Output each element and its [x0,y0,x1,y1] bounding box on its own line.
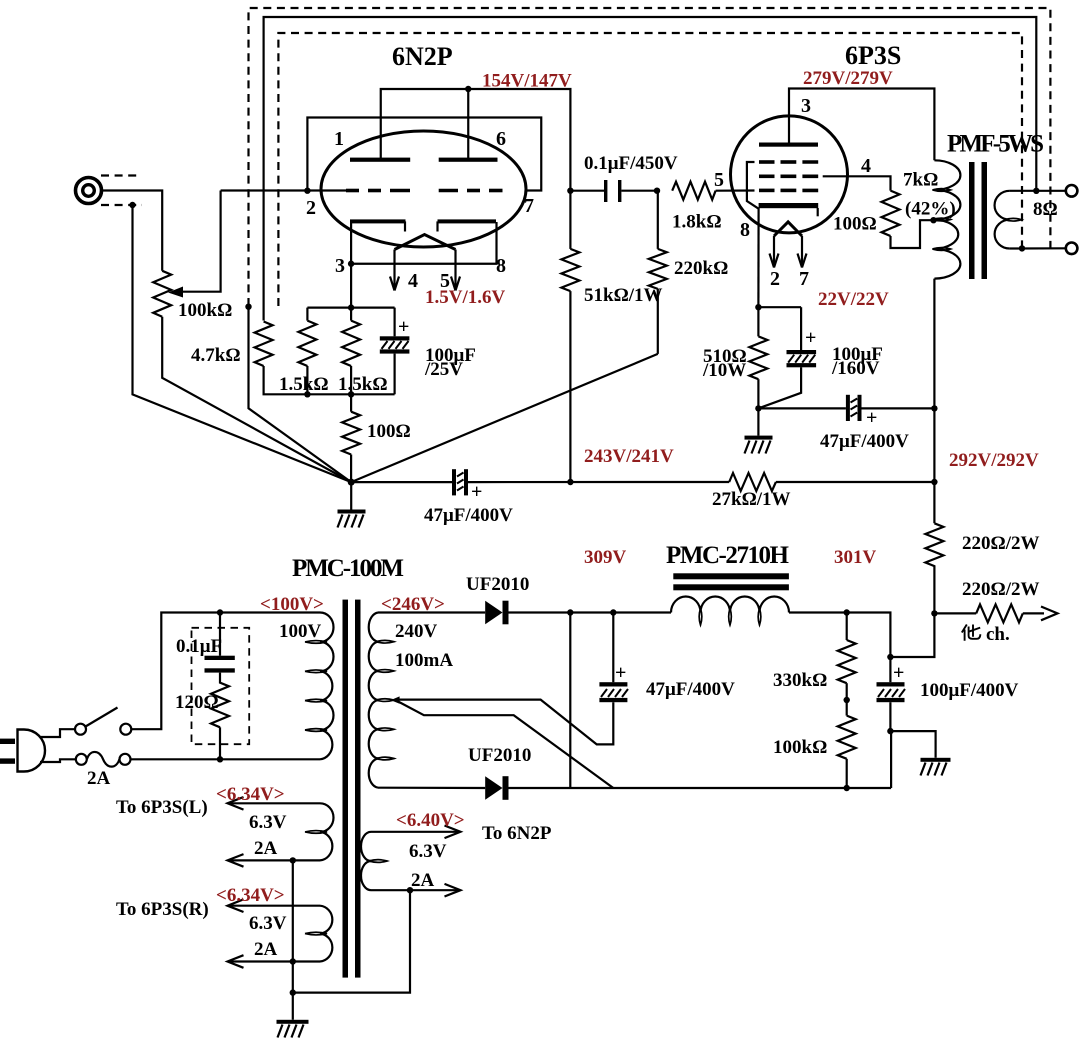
node: jack ground junction [129,202,135,208]
svg-text:8: 8 [740,219,750,241]
svg-text:220Ω/2W: 220Ω/2W [962,579,1040,600]
svg-text:<100V>: <100V> [260,594,324,615]
T2 secondary winding [995,191,1010,249]
svg-text:UF2010: UF2010 [468,745,531,766]
svg-text:100kΩ: 100kΩ [178,300,232,321]
T2 primary tap leaf 2 (42% UL tap) [932,218,950,221]
node: C7 top junction [610,609,616,615]
svg-text:7kΩ: 7kΩ [903,170,938,191]
T1 heater winding 6.3V for 6N2P [361,832,387,890]
svg-text:220Ω/2W: 220Ω/2W [962,533,1040,554]
grid g1 control row (dashed) [759,189,818,193]
wire: jack hot to volume pot top [102,191,162,271]
wire: T2 primary bottom to 292V node [933,279,935,524]
svg-text:+: + [471,481,482,503]
svg-text:7: 7 [799,268,809,290]
capacitor C8 100uF/400V final filter [877,657,906,731]
fuse F1 2A [76,752,131,767]
wire: dashed jack ground link [101,204,142,206]
resistor R3 1.5k ohm (first) [298,308,316,395]
node: bottom rail junction at 1.5k first [304,391,310,397]
node: 330k top junction [844,609,850,615]
node: 42 percent tap junction [930,217,936,223]
resistor R7 220k ohm (grid leak) [649,191,667,354]
AC plug P1 [0,730,45,772]
wire: 4.7k bottom to cathode bottom rail [264,366,395,394]
plate V2 (anode) [759,143,818,147]
svg-text:1.5kΩ: 1.5kΩ [338,374,388,395]
wire: center tap to C7 negative [395,700,614,745]
wire: secondary bottom to 8 ohm terminal [1010,247,1066,249]
label: 100uF /160V [831,344,883,379]
cathode V1b [438,219,497,231]
T1 heater winding 6.3V for 6P3S(L) [305,803,334,860]
wire: ground feedback continuation to star point [249,307,352,482]
svg-text:2: 2 [306,197,316,219]
svg-text:27kΩ/1W: 27kΩ/1W [712,489,791,510]
svg-text:154V/147V: 154V/147V [482,71,572,92]
tube V1 6N2P envelope [321,131,526,247]
T2 secondary leaf [1005,218,1022,221]
plate V1b (right anode) [439,158,498,162]
svg-text:1: 1 [334,128,344,150]
svg-text:22V/22V: 22V/22V [818,289,889,310]
node: grid rectangle junction at pin 2 [304,188,310,194]
wire: plate pin 3 to output transformer primary top [789,89,934,161]
resistor R4 1.5k ohm (second) [342,308,360,395]
node: cathode network top junction [755,304,761,310]
svg-text:220kΩ: 220kΩ [674,258,728,279]
svg-text:100V: 100V [279,621,322,642]
potentiometer VR1 100k ohm [153,271,171,317]
svg-text:2A: 2A [411,870,435,891]
ground G1 below star point [338,482,366,527]
node: C8 negative junction [887,728,893,734]
terminal: 8 ohm plus [1066,185,1078,197]
transformer T2 PMF-5WS output [932,131,1044,280]
svg-text:100Ω: 100Ω [833,214,877,235]
svg-text:243V/241V: 243V/241V [584,446,674,467]
svg-text:<6.34V>: <6.34V> [216,885,285,906]
svg-text:47μF/400V: 47μF/400V [820,431,909,452]
wire: grid signal line to 6N2P pin 2 [221,189,347,191]
wire: switch to 100V winding top [131,613,320,730]
svg-text:2A: 2A [87,768,111,789]
node: 292V junction [931,479,937,485]
svg-text:4: 4 [861,155,871,177]
wire: D2 cathode along bottom return rail [509,787,892,789]
node: ground bus lower junction [290,989,296,995]
node: snubber bottom junction [217,756,223,762]
wire: heater ground bus [292,860,294,1019]
resistor R15 330k ohm bleeder [838,613,856,716]
svg-text:47μF/400V: 47μF/400V [646,679,735,700]
T1 100V winding leaves [305,641,327,644]
wire: heater 6N2P return to ground bus [293,890,410,992]
label: other channel (kanji ta) ch. [962,624,1010,645]
wire: pot bottom to star ground [162,317,351,482]
L1 core [673,573,789,579]
capacitor C3 100uF/160V cathode bypass [758,307,816,408]
svg-text:+: + [893,662,904,684]
svg-text:4: 4 [408,270,418,292]
svg-text:1.5kΩ: 1.5kΩ [279,374,329,395]
T2 core [969,162,975,279]
node: heater R ground junction [290,958,296,964]
label: 100uF /25V [424,345,476,380]
transformer T1 PMC-100M [292,555,404,978]
wire: dashed feedback line (other channel, 8-ohm bottom to star ground) [249,8,1051,306]
svg-text:1.8kΩ: 1.8kΩ [672,212,722,233]
resistor R9 510 ohm /10W cathode bias [749,307,767,408]
T1 heater winding 6.3V for 6P3S(R) [305,906,332,962]
heater pin 7 lead arrow [798,236,807,268]
svg-text:6: 6 [496,128,506,150]
svg-text:47μF/400V: 47μF/400V [424,505,513,526]
snubber dashed box [192,628,250,744]
svg-text:PMC-2710H: PMC-2710H [666,542,790,569]
wire: screen grid pin 4 to UL tap resistor [823,176,891,190]
wire: cathode leads to pins 3 and 8 [351,222,496,264]
svg-text:7: 7 [524,195,534,217]
node: rectifier output junction [567,609,573,615]
wire: 243V rail [468,481,729,483]
wire: plate leads and B+ wire to coupling node [381,89,571,191]
resistor R11 27k/1W decoupling [729,473,934,491]
T1 core [343,600,349,978]
ground G2 below 510 network [745,408,773,453]
wire: plug neutral to fuse [40,759,76,762]
wire: solid NFB line (8-ohm top to 4.7k resistor) [264,17,1037,321]
resistor R6 51k/1W (plate load) [561,191,579,482]
T2 primary tap leaf 3 [932,248,950,251]
svg-text:120Ω: 120Ω [175,692,219,713]
wire: heater L bottom arrow [228,854,321,867]
wire: C8 negative to return rail corner [889,731,892,788]
wire: 240V bottom to diode D2 [378,787,485,789]
svg-text:/160V: /160V [831,358,880,379]
capacitor C7 47uF/400V reservoir [599,613,628,703]
svg-text:4.7kΩ: 4.7kΩ [191,345,241,366]
svg-text:2: 2 [770,268,780,290]
svg-text:100kΩ: 100kΩ [773,737,827,758]
svg-text:8: 8 [496,255,506,277]
node: bleeder bottom junction [844,785,850,791]
svg-text:6P3S: 6P3S [845,41,901,70]
wire: 240V top to diode D1 [378,611,485,613]
heater V1 filament [395,235,456,250]
wire: center tap to ground return rail [395,700,614,788]
choke L1 PMC-2710H [666,542,790,625]
diode D2 UF2010 [485,776,508,800]
svg-text:0.1μF: 0.1μF [176,636,222,657]
diode D1 UF2010 [485,601,508,625]
wire: heater R top arrow [228,899,321,912]
svg-text:<6.40V>: <6.40V> [396,810,465,831]
wire: choke output 301V [789,613,890,658]
node: plate B+ junction (154V measure point) [465,86,471,92]
svg-text:/25V: /25V [424,359,463,380]
node: snubber top junction [217,609,223,615]
resistor R10 100 ohm (UL tap stopper) [882,191,934,248]
svg-text:+: + [398,316,409,338]
wire: jack ground down to star point [133,205,352,482]
svg-text:2A: 2A [254,939,278,960]
switch SW1 [75,708,131,735]
wire: cathode network top rail [307,307,394,309]
svg-text:+: + [805,327,816,349]
resistor R2 4.7k ohm (NFB injection) [255,322,273,367]
node: star ground point [348,479,355,486]
svg-text:/10W: /10W [702,360,746,381]
resistor R14 120 ohm snubber [211,673,229,760]
svg-text:279V/279V: 279V/279V [803,68,893,89]
svg-text:309V: 309V [584,547,627,568]
svg-text:51kΩ/1W: 51kΩ/1W [584,285,663,306]
ground G4 at C8 [890,731,950,775]
wire: cathode pin 8 down to bias network [757,208,759,307]
svg-text:6.3V: 6.3V [409,841,447,862]
wire: grid tie rectangle pins 2-7 [307,118,541,191]
heater pin 4 lead arrow [390,250,399,291]
node: 100uF top junction [887,654,893,660]
wire: dashed stub from jack hot to other channel [101,174,142,176]
capacitor C2 100uF/25V electrolytic [380,308,410,395]
wire: top rail of 510 network [758,306,801,308]
node: plate coupling junction [567,188,573,194]
svg-text:3: 3 [801,95,811,117]
wire: heater 6N2P top arrow [371,826,461,839]
plate V1a (left anode) [350,158,410,162]
center tap arrow of 240V winding [391,696,400,703]
svg-text:UF2010: UF2010 [466,574,529,595]
resistor R8 1.8k ohm (grid stopper) [672,182,754,200]
wire: heater L top arrow [228,797,321,810]
wire: heater R bottom arrow [228,955,321,968]
T2 primary winding 7k ohm [934,160,960,278]
L1 coil [671,597,789,613]
svg-text:(42%): (42%) [905,199,956,220]
node: 510 network bottom junction [755,405,761,411]
wire: fuse to 100V winding bottom [131,758,321,760]
svg-text:0.1μF/450V: 0.1μF/450V [584,153,678,174]
node: bottom rail junction at 100 ohm [348,391,354,397]
resistor R13 220 ohm /2W to other channel [934,604,1057,622]
wire: D1 cathode to 309V rail [509,611,672,613]
svg-text:6N2P: 6N2P [392,42,453,71]
terminal: 8 ohm minus [1066,243,1078,255]
capacitor C5 47uF/400V (243V filter, ladder style) [452,469,468,495]
input jack J1 (RCA) [76,178,102,204]
resistor R16 100k ohm bleeder [838,716,856,788]
wire: beam plate bracket tied to cathode [747,162,759,209]
svg-text:100Ω: 100Ω [367,421,411,442]
svg-text:330kΩ: 330kΩ [773,670,827,691]
wire: dashed NFB line (other channel) [278,33,1022,306]
node: 301V junction to droppers [931,610,937,616]
node: junction on dashed ground feedback line [245,304,251,310]
ground G3 heater bus [277,1020,309,1038]
node: divider mid junction [844,697,850,703]
grid V1a (dashed) [346,189,410,193]
svg-text:301V: 301V [834,547,877,568]
tube V2 6P3S envelope [731,116,848,233]
svg-text:6.3V: 6.3V [249,913,287,934]
capacitor C1 0.1uF/450V coupling [570,180,657,202]
T2 primary tap leaf 1 [932,189,950,192]
svg-text:<6.34V>: <6.34V> [216,784,285,805]
node: NFB takeoff on 8 ohm top [1033,188,1039,194]
svg-text:ch.: ch. [986,624,1010,645]
node: top rail junction [348,304,354,310]
svg-text:240V: 240V [395,621,438,642]
cathode V2 [759,203,819,216]
capacitor C4 47uF/400V (292V filter, ladder style) [758,395,934,421]
heater pin 5 lead arrow [451,250,460,291]
svg-text:8Ω: 8Ω [1033,199,1058,220]
resistor R5 100 ohm (cathode to star) [342,394,360,482]
wire: pot wiper arm to grid line [168,191,221,298]
svg-text:2A: 2A [254,838,278,859]
resistor R12 220 ohm /2W dropper [925,523,943,613]
node: heater 6N2P ground junction [407,887,413,893]
wire: 220k return diagonal to star ground [351,354,658,482]
svg-text:1.5V/1.6V: 1.5V/1.6V [425,287,506,308]
wire: 301V link to dropper junction [890,613,934,657]
svg-text:292V/292V: 292V/292V [949,450,1039,471]
T1 100V primary winding [320,613,334,760]
wire: secondary top to 8 ohm terminal [1010,190,1066,192]
svg-text:6.3V: 6.3V [249,812,287,833]
node: dashed feedback junction on 8 ohm bottom [1019,245,1025,251]
svg-text:PMF-5WS: PMF-5WS [947,131,1044,158]
svg-text:+: + [615,662,626,684]
grid g2 screen row (dashed) [759,175,818,179]
capacitor C6 0.1uF snubber [205,613,235,673]
svg-text:PMC-100M: PMC-100M [292,555,404,582]
wire: plug to power switch [40,729,75,737]
heater pin 2 lead arrow [770,236,779,268]
heater V2 filament [774,222,802,236]
node: 220k junction [654,188,660,194]
svg-text:+: + [866,407,877,429]
svg-text:3: 3 [335,255,345,277]
wire: rectifier output tie line down to D2 [569,613,571,789]
svg-text:100μF/400V: 100μF/400V [920,680,1019,701]
T1 240V HV secondary winding [369,613,394,788]
label: 510 ohm /10W [702,346,747,381]
node: heater L ground junction [290,857,296,863]
node: pin 3 junction [348,261,354,267]
svg-text:100mA: 100mA [395,650,453,671]
grid V1b (dashed) [439,189,503,193]
svg-text:To 6P3S(R): To 6P3S(R) [116,899,209,920]
svg-text:To 6P3S(L): To 6P3S(L) [116,797,208,818]
svg-text:To 6N2P: To 6N2P [482,823,552,844]
node: C4 to 292V riser junction [931,405,937,411]
grid g3 beam plates row (dashed) [759,160,818,164]
cathode V1a [350,219,406,231]
wire: heater 6N2P bottom arrow [371,884,461,897]
node: 51k bottom junction on 243V rail [567,479,573,485]
wire: star ground to C5 left plate [351,481,452,483]
wire: pin 3 down to cathode network top rail [350,264,352,308]
svg-text:5: 5 [714,169,724,191]
